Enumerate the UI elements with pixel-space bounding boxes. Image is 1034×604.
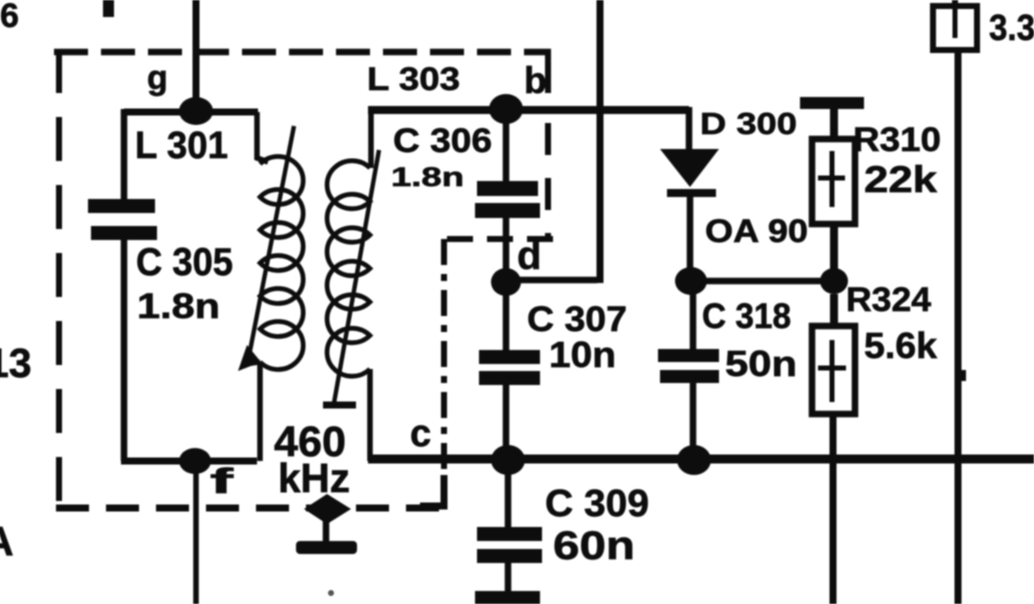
wire: main bottom bus xyxy=(368,455,1034,464)
svg-text:R324: R324 xyxy=(846,281,931,319)
shield can dashed outline: jog xyxy=(440,236,553,242)
svg-text:g: g xyxy=(147,59,168,97)
node f junction xyxy=(179,448,211,474)
node b junction xyxy=(489,94,523,124)
svg-text:10n: 10n xyxy=(549,334,616,375)
shield can dashed outline: bottom edge xyxy=(56,505,443,512)
svg-text:L 303: L 303 xyxy=(367,61,460,97)
resistor R324 xyxy=(812,294,855,604)
junction dot bus/C307 xyxy=(491,445,525,475)
svg-text:A: A xyxy=(0,518,14,564)
svg-text:13: 13 xyxy=(0,340,32,386)
svg-text:C 306: C 306 xyxy=(393,122,492,160)
wire: right vertical feed xyxy=(955,50,962,604)
wire: node d to AGC riser xyxy=(506,277,597,284)
svg-text:L 301: L 301 xyxy=(135,125,228,167)
svg-text:C 309: C 309 xyxy=(545,483,649,525)
shield can dashed outline: left edge xyxy=(56,49,62,512)
shield can dashed outline: bottom-right corner piece xyxy=(420,475,444,506)
shield can dashed outline: right upper edge xyxy=(545,49,551,238)
resistor 3.3k top right xyxy=(933,0,977,50)
diode D300 xyxy=(660,107,719,281)
junction dot bus/C318 xyxy=(677,445,711,475)
inductor L303 secondary winding xyxy=(327,110,371,461)
svg-text:1.8n: 1.8n xyxy=(137,287,220,326)
svg-text:22k: 22k xyxy=(864,159,937,200)
resistor R310 xyxy=(800,97,864,281)
shield can dashed outline: top edge xyxy=(54,49,551,56)
svg-text:f: f xyxy=(210,462,234,501)
svg-text:R310: R310 xyxy=(853,121,941,159)
svg-text:c: c xyxy=(410,413,431,455)
wire: AGC riser vertical xyxy=(597,0,604,283)
svg-text:3.3: 3.3 xyxy=(989,7,1034,48)
wire: detector node to R310/R324 xyxy=(691,278,834,285)
capacitor C307 xyxy=(479,282,540,461)
capacitor C309 xyxy=(475,460,542,604)
svg-text:5.6k: 5.6k xyxy=(864,325,938,366)
L303 tuning slug arrow xyxy=(323,150,379,405)
wire: lead from top edge into node g xyxy=(193,0,200,110)
svg-text:C 318: C 318 xyxy=(702,297,791,336)
wire: primary tank top rail xyxy=(124,109,258,116)
svg-text:1.8n: 1.8n xyxy=(391,162,464,192)
svg-text:60n: 60n xyxy=(553,524,635,568)
node: detector junction (D300/C318) xyxy=(675,267,707,295)
capacitor C305 xyxy=(88,109,157,461)
wire: node f down to bottom edge xyxy=(193,461,199,604)
stub tick on right vertical xyxy=(956,370,966,381)
svg-text:kHz: kHz xyxy=(278,455,350,501)
svg-text:OA 90: OA 90 xyxy=(705,213,808,249)
capacitor C306 xyxy=(475,110,540,283)
node d junction xyxy=(491,268,521,296)
L301 tuning slug arrow xyxy=(238,126,294,371)
terminal tick top-left xyxy=(103,0,114,17)
shield can dashed outline: right lower edge xyxy=(441,239,447,478)
svg-text:D 300: D 300 xyxy=(700,106,797,141)
wire: secondary top rail (L303 - node b - D300) xyxy=(368,106,689,114)
ground: shield to chassis xyxy=(296,494,357,554)
capacitor C318 xyxy=(658,281,719,460)
svg-text:C 305: C 305 xyxy=(136,241,233,284)
svg-text:6: 6 xyxy=(0,0,19,35)
inductor L301 primary winding xyxy=(247,112,303,461)
svg-text:50n: 50n xyxy=(725,343,797,384)
speck xyxy=(328,590,334,596)
node: R310/R324 junction xyxy=(820,268,848,294)
svg-text:b: b xyxy=(524,60,547,101)
node g junction xyxy=(179,97,213,125)
wire: primary tank bottom (to node f) xyxy=(121,458,257,465)
